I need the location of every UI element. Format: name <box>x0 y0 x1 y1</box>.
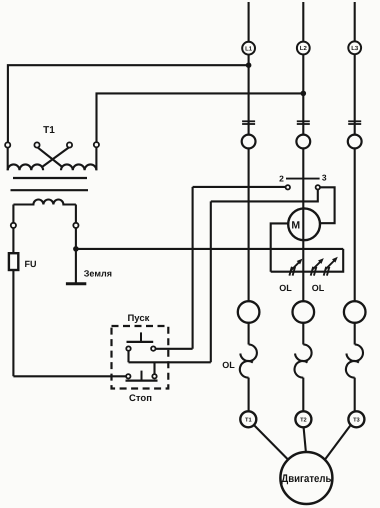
svg-text:OL: OL <box>312 283 325 293</box>
svg-text:T2: T2 <box>300 417 307 423</box>
svg-text:Стоп: Стоп <box>129 393 152 404</box>
svg-text:Двигатель: Двигатель <box>281 473 331 485</box>
svg-text:OL: OL <box>222 360 235 370</box>
svg-text:2: 2 <box>279 173 284 183</box>
svg-text:L1: L1 <box>245 45 253 52</box>
svg-text:M: M <box>291 219 300 231</box>
svg-text:OL: OL <box>279 283 292 293</box>
svg-text:L3: L3 <box>351 45 359 52</box>
svg-text:Пуск: Пуск <box>127 313 149 324</box>
svg-text:T1: T1 <box>245 417 252 423</box>
svg-text:L2: L2 <box>300 45 308 52</box>
svg-text:Т1: Т1 <box>43 125 55 136</box>
svg-text:Земля: Земля <box>84 269 112 279</box>
svg-text:3: 3 <box>322 173 327 183</box>
svg-text:T3: T3 <box>353 417 360 423</box>
svg-text:FU: FU <box>25 259 37 269</box>
